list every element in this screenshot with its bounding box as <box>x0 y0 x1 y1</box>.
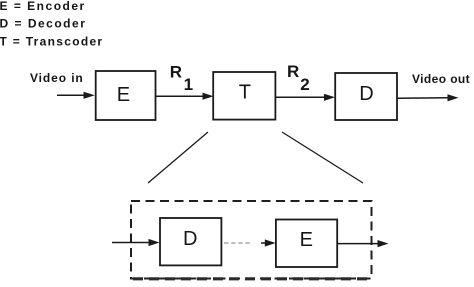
svg-text:E: E <box>300 229 313 251</box>
wire: faint dashed link inner decoder to inner encoder <box>224 242 252 244</box>
svg-text:D: D <box>183 228 197 250</box>
wire: video-in arrow into encoder <box>57 92 95 99</box>
wire: arrow into dashed box to inner decoder <box>112 239 160 246</box>
wire: arrow out of dashed box from inner encoder <box>337 240 388 247</box>
svg-text:D = Decoder: D = Decoder <box>0 17 86 31</box>
svg-text:T: T <box>239 82 251 104</box>
svg-text:E = Encoder: E = Encoder <box>0 0 86 13</box>
callout diagonal right from transcoder <box>282 132 363 183</box>
inner box D (decoder inside transcoder) <box>160 218 221 265</box>
arrow into inner encoder <box>261 239 276 246</box>
wire: video-out arrow from decoder <box>397 94 459 101</box>
svg-text:R: R <box>287 62 299 81</box>
svg-text:R: R <box>170 63 182 82</box>
inner box E (encoder inside transcoder) <box>276 220 337 268</box>
svg-text:2: 2 <box>300 75 309 94</box>
box D (decoder) <box>335 73 397 120</box>
svg-text:1: 1 <box>184 75 193 94</box>
svg-text:D: D <box>359 83 373 105</box>
box E (encoder) <box>96 71 156 120</box>
svg-text:Video out: Video out <box>412 72 470 86</box>
dashed detail box <box>131 201 372 279</box>
svg-text:Video in: Video in <box>30 71 84 85</box>
wire: transcoder to decoder with arrow <box>275 94 335 101</box>
wire: encoder to transcoder with arrow <box>156 93 214 100</box>
callout diagonal left from transcoder <box>148 132 208 183</box>
dashed detail box thick bottom edge <box>133 277 370 280</box>
svg-text:E: E <box>117 84 130 106</box>
box T (transcoder) <box>213 72 275 120</box>
svg-text:T = Transcoder: T = Transcoder <box>0 34 103 48</box>
